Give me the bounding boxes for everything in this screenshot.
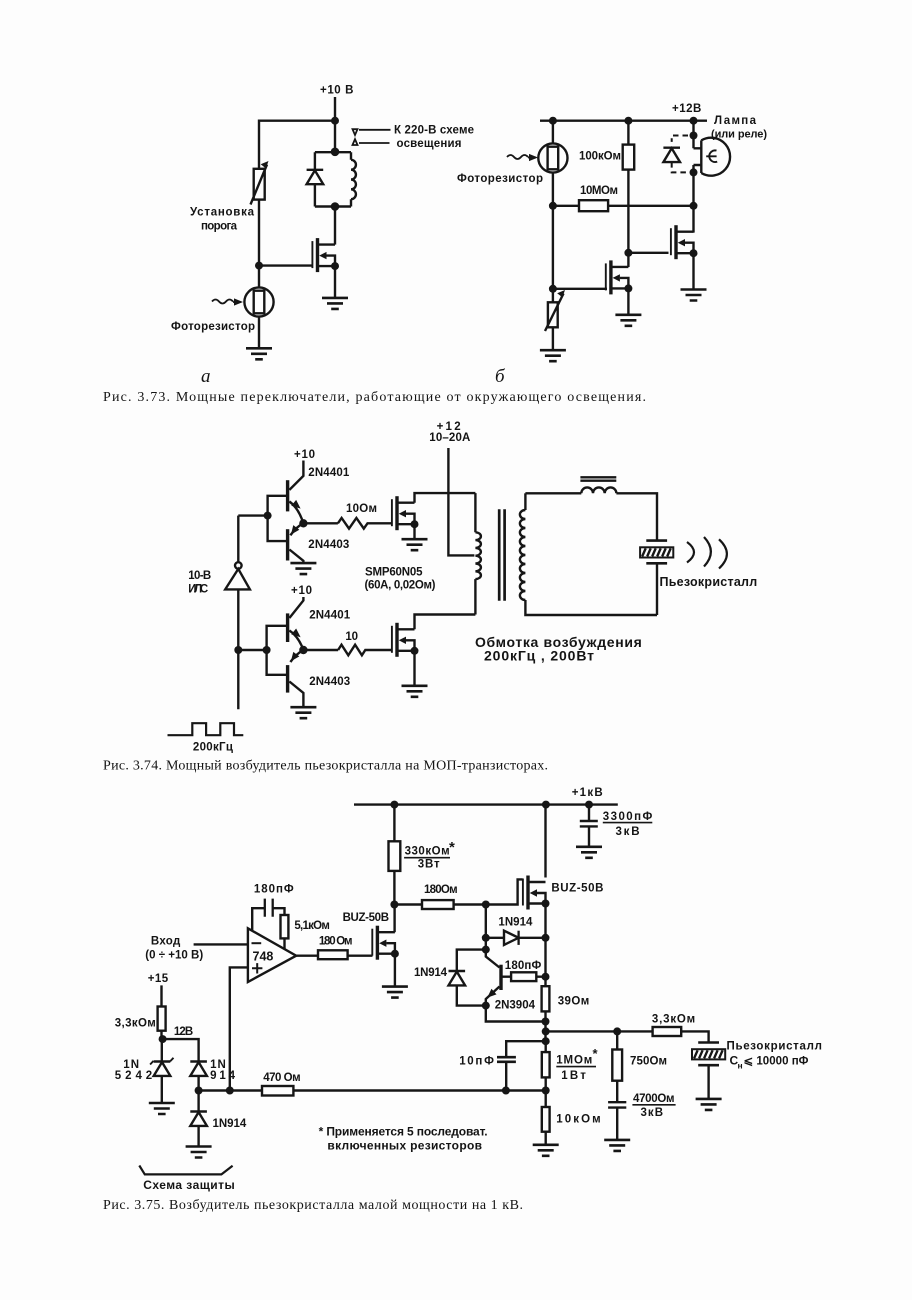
svg-text:Пьезокристалл: Пьезокристалл — [727, 1041, 822, 1053]
svg-text:12В: 12В — [174, 1026, 193, 1038]
svg-text:+10: +10 — [291, 585, 312, 597]
svg-text:10пФ: 10пФ — [459, 1055, 494, 1067]
svg-text:Рис. 3.75. Возбудитель пьезокр: Рис. 3.75. Возбудитель пьезокристалла ма… — [103, 1198, 523, 1213]
svg-text:+1кВ: +1кВ — [572, 787, 603, 799]
svg-text:3300пФ: 3300пФ — [603, 811, 653, 823]
svg-text:200кГц: 200кГц — [193, 742, 233, 754]
svg-text:2N4403: 2N4403 — [308, 539, 349, 551]
svg-text:10–20А: 10–20А — [429, 432, 470, 444]
svg-text:180 Ом: 180 Ом — [319, 935, 353, 947]
svg-text:5242: 5242 — [115, 1070, 152, 1082]
svg-text:+12В: +12В — [672, 103, 702, 115]
svg-text:Установка: Установка — [190, 207, 255, 219]
svg-text:748: 748 — [253, 950, 274, 964]
svg-text:470 Ом: 470 Ом — [263, 1072, 300, 1084]
svg-text:1МОм: 1МОм — [556, 1055, 592, 1067]
svg-text:Рис. 3.73. Мощные переключател: Рис. 3.73. Мощные переключатели, работаю… — [103, 390, 646, 405]
svg-text:3,3кОм: 3,3кОм — [115, 1018, 156, 1030]
svg-text:Лампа: Лампа — [714, 115, 757, 127]
svg-text:Фоторезистор: Фоторезистор — [171, 321, 255, 333]
svg-text:3,3кОм: 3,3кОм — [652, 1014, 695, 1026]
svg-text:4700Ом: 4700Ом — [633, 1093, 675, 1105]
svg-text:100кОм: 100кОм — [579, 151, 621, 163]
svg-text:Пьезокристалл: Пьезокристалл — [660, 575, 758, 589]
svg-text:2N4401: 2N4401 — [308, 467, 350, 479]
svg-text:200кГц , 200Вт: 200кГц , 200Вт — [484, 647, 594, 663]
svg-text:SMP60N05: SMP60N05 — [365, 567, 423, 579]
svg-text:2N4401: 2N4401 — [309, 610, 351, 622]
svg-text:Фоторезистор: Фоторезистор — [457, 173, 543, 185]
svg-text:10-В: 10-В — [188, 570, 211, 582]
svg-text:39Ом: 39Ом — [558, 996, 590, 1008]
svg-text:3Вт: 3Вт — [418, 858, 440, 870]
svg-text:включенных резисторов: включенных резисторов — [327, 1138, 482, 1152]
svg-text:330кОм: 330кОм — [405, 846, 450, 858]
svg-text:*: * — [593, 1046, 599, 1061]
svg-text:180пФ: 180пФ — [505, 960, 542, 972]
svg-text:б: б — [495, 366, 506, 387]
svg-text:180Ом: 180Ом — [424, 884, 458, 896]
svg-text:10кОм: 10кОм — [556, 1114, 600, 1126]
svg-text:+10 B: +10 B — [320, 85, 354, 97]
svg-text:10МОм: 10МОм — [580, 185, 618, 197]
svg-text:(60А, 0,02Ом): (60А, 0,02Ом) — [365, 580, 436, 592]
svg-text:⩽ 10000 пФ: ⩽ 10000 пФ — [744, 1056, 809, 1068]
svg-text:1Вт: 1Вт — [561, 1070, 586, 1082]
svg-text:BUZ-50B: BUZ-50B — [343, 912, 389, 924]
svg-text:1N914: 1N914 — [498, 917, 533, 929]
svg-text:(или реле): (или реле) — [711, 129, 767, 141]
svg-text:+10: +10 — [294, 449, 315, 461]
svg-text:освещения: освещения — [397, 138, 462, 150]
svg-text:(0 ÷ +10 В): (0 ÷ +10 В) — [145, 950, 203, 962]
svg-text:3кВ: 3кВ — [616, 826, 640, 838]
svg-text:3кВ: 3кВ — [641, 1107, 664, 1119]
svg-text:1N914: 1N914 — [213, 1118, 247, 1130]
svg-text:ИЛС: ИЛС — [188, 584, 208, 596]
svg-text:Схема защиты: Схема защиты — [143, 1178, 234, 1192]
svg-text:BUZ-50B: BUZ-50B — [551, 883, 603, 895]
svg-text:*: * — [449, 839, 455, 856]
svg-text:а: а — [201, 366, 211, 387]
svg-text:5,1кОм: 5,1кОм — [294, 920, 330, 932]
svg-text:2N3904: 2N3904 — [495, 1000, 536, 1012]
svg-text:Вход: Вход — [151, 935, 181, 947]
svg-text:750Ом: 750Ом — [630, 1056, 667, 1068]
svg-text:10Ом: 10Ом — [346, 503, 377, 515]
svg-text:Рис. 3.74. Мощный возбудитель: Рис. 3.74. Мощный возбудитель пьезокрист… — [103, 759, 548, 774]
svg-text:* Применяется 5 последоват.: * Применяется 5 последоват. — [319, 1125, 488, 1139]
svg-text:К 220-В схеме: К 220-В схеме — [394, 125, 474, 137]
svg-text:914: 914 — [210, 1070, 235, 1082]
svg-text:10: 10 — [345, 631, 358, 643]
svg-text:180пФ: 180пФ — [254, 884, 294, 896]
svg-text:порога: порога — [201, 221, 238, 233]
svg-text:+15: +15 — [148, 973, 169, 985]
svg-text:н: н — [738, 1061, 743, 1071]
svg-text:1N914: 1N914 — [414, 967, 448, 979]
svg-text:2N4403: 2N4403 — [309, 676, 350, 688]
